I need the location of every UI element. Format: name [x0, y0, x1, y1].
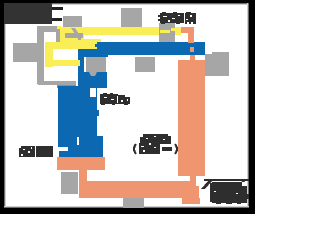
- blue below building: [78, 72, 107, 88]
- salmon route top leg: [181, 27, 194, 33]
- yellow route lower leg: [45, 60, 80, 66]
- blue junction under band: [84, 49, 108, 57]
- border frame left: [0, 0, 4, 214]
- salmon bridge at column base: [190, 176, 196, 182]
- salmon stub below band: [190, 55, 195, 60]
- gray road: vertical tab A: [56, 31, 60, 43]
- salmon band A southwest: [57, 157, 105, 170]
- yellow route left leg: [45, 42, 53, 67]
- gray building north B: [121, 8, 142, 27]
- blue route east band: [97, 42, 205, 55]
- label C line 2 (parenthesis): [134, 143, 177, 154]
- gray building over blue: [86, 57, 106, 72]
- gray building west: [13, 43, 38, 62]
- gray building east: [205, 54, 229, 76]
- white notch top-right of wide column: [90, 88, 96, 97]
- gray road: top band west: [37, 26, 61, 32]
- salmon band B south: [79, 181, 199, 198]
- border frame right: [249, 0, 255, 214]
- salmon neck lower: [79, 170, 87, 181]
- salmon crossing square: [190, 47, 194, 52]
- label E top rule: [204, 179, 249, 181]
- white gap left of bridge: [178, 176, 190, 181]
- border fade right: [248, 0, 249, 214]
- blue bottom-right widening: [97, 136, 103, 157]
- yellow dash on slope block east: [171, 28, 181, 31]
- label C line 1 (center right): [140, 134, 171, 144]
- yellow tab over blue neck: [77, 60, 80, 66]
- white slit in blue: [77, 137, 79, 145]
- blue column wide: [58, 86, 97, 157]
- gray building over yellow (slope block): [159, 23, 175, 43]
- white gap in yellow junction: [84, 35, 101, 39]
- border frame bottom: [0, 208, 255, 214]
- label B (center): [100, 93, 130, 105]
- title stub line 2: [52, 18, 62, 21]
- border fade top: [0, 3, 255, 4]
- yellow junction block: [60, 27, 97, 49]
- blue small bump: [97, 110, 99, 116]
- label A (top right): [158, 12, 196, 24]
- border fade bottom: [0, 207, 255, 208]
- yellow dash on slope block west: [160, 30, 170, 33]
- white gap right of bridge: [196, 176, 203, 186]
- label E right diagonal: [237, 181, 245, 187]
- gray building south bump: [132, 195, 138, 197]
- title block: [3, 2, 52, 24]
- salmon neck upper: [188, 31, 194, 43]
- label E main mass: [212, 182, 251, 203]
- salmon foot: [182, 198, 200, 204]
- gray building center: [135, 57, 155, 72]
- border frame top: [0, 0, 255, 3]
- salmon main column: [178, 60, 205, 176]
- label D (west): [19, 146, 53, 157]
- gray building bottom wedge: [89, 72, 97, 76]
- yellow dot at band edge: [57, 26, 61, 29]
- yellow route second band: [45, 42, 97, 49]
- gray building southwest: [61, 172, 78, 194]
- gray diagonal connector: [71, 28, 79, 34]
- gray road: left leg: [37, 26, 44, 84]
- gray road: bottom leg: [38, 81, 76, 85]
- yellow extension over band top: [97, 39, 101, 42]
- gray building north A: [63, 16, 82, 28]
- blue bite into yellow: [95, 44, 97, 47]
- white notch bottom-left of wide column: [50, 147, 68, 151]
- gray building south: [123, 197, 144, 208]
- gray building east top strip: [212, 52, 229, 54]
- title stub line 1: [52, 7, 63, 10]
- label E left diagonal: [201, 181, 212, 189]
- gray road: dark under-line: [57, 85, 76, 88]
- blue neck: [78, 49, 84, 88]
- gray tab B over yellow: [65, 33, 83, 38]
- border fade left: [4, 0, 5, 214]
- yellow route top band: [84, 27, 181, 35]
